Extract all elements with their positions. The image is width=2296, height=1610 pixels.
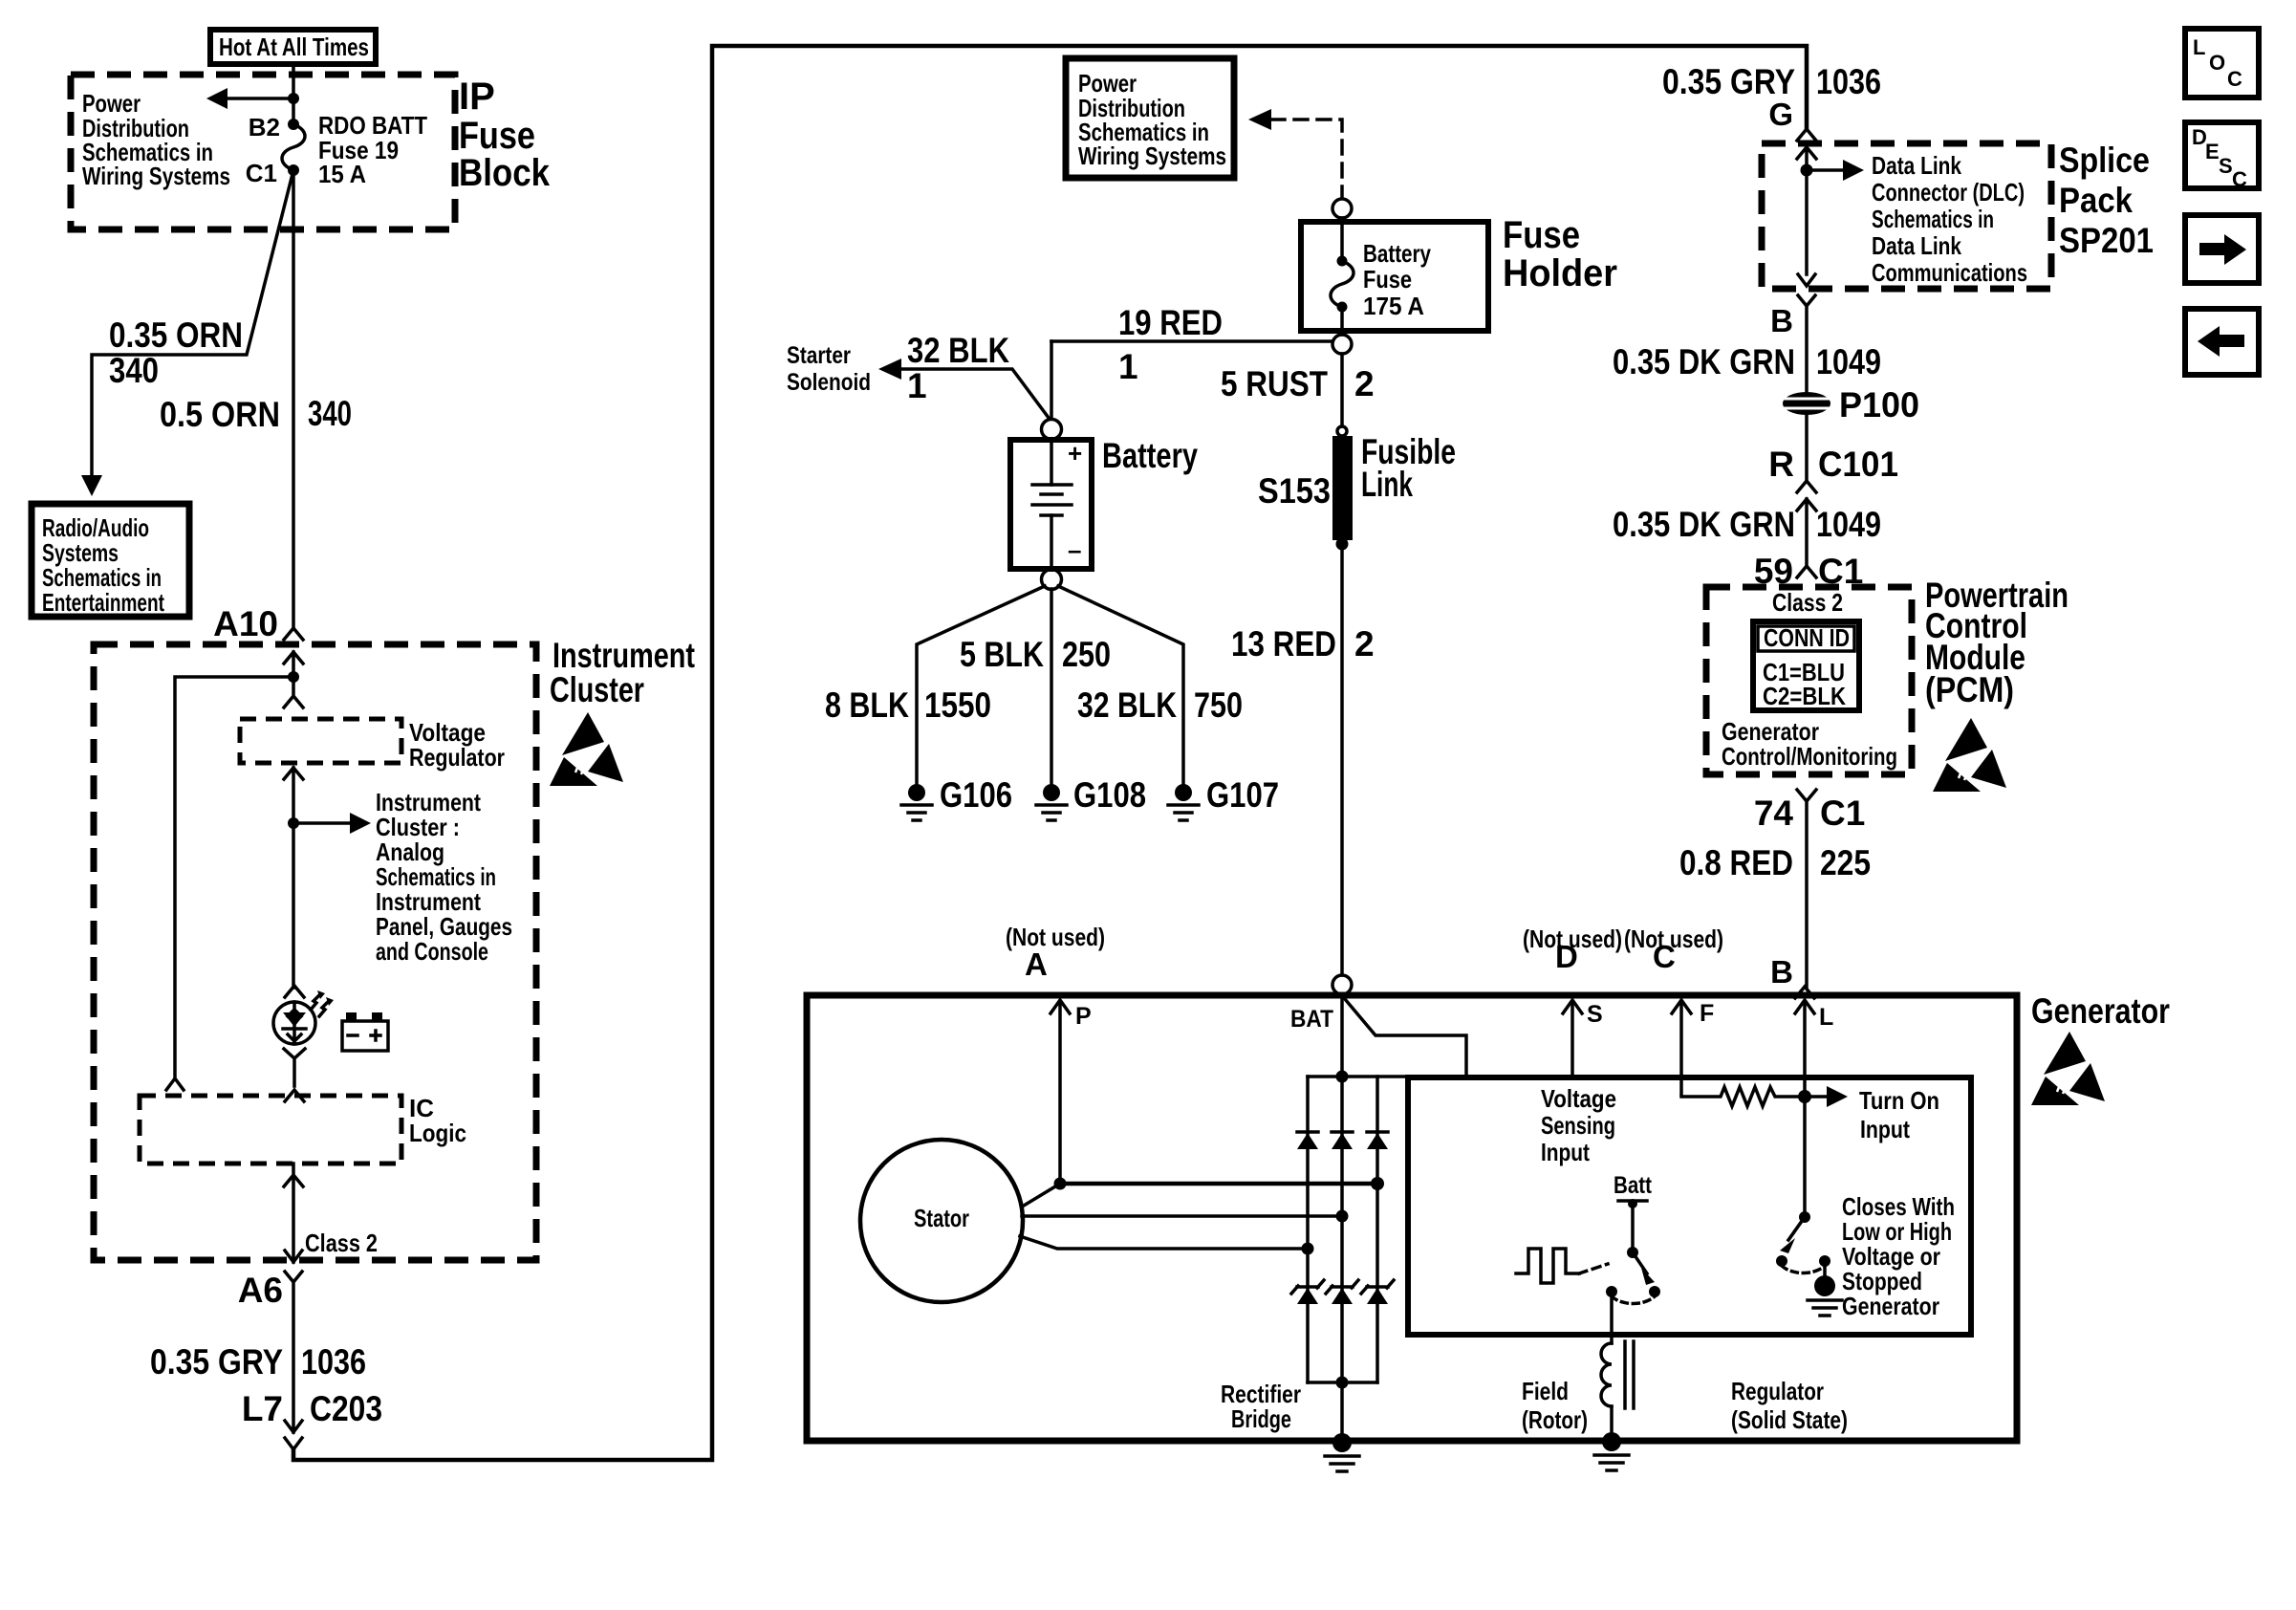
svg-text:5 BLK: 5 BLK <box>960 635 1044 674</box>
svg-text:1: 1 <box>1118 347 1138 386</box>
svg-text:13 RED: 13 RED <box>1231 624 1336 664</box>
icon: forward arrow box <box>2185 215 2259 283</box>
icon: ESD warning triangle (PCM) <box>1933 718 2006 792</box>
svg-text:Entertainment: Entertainment <box>42 588 164 617</box>
label: IP Fuse Block <box>459 76 551 194</box>
svg-text:Generator: Generator <box>2031 991 2170 1031</box>
wire: IC logic to cluster exit <box>284 1164 303 1262</box>
terminal: fuse holder top ring <box>1332 199 1352 218</box>
svg-text:Schematics in: Schematics in <box>1872 205 1994 233</box>
svg-text:A: A <box>1025 946 1048 982</box>
junction: resistor to L wire <box>1798 1090 1811 1103</box>
connector: above charge indicator LED <box>285 986 304 997</box>
note: Instrument Cluster Analog Schematics <box>376 788 512 966</box>
svg-text:R: R <box>1768 445 1794 484</box>
svg-text:B: B <box>1770 954 1793 990</box>
svg-text:E: E <box>2205 140 2220 163</box>
label: Instrument Cluster <box>550 636 695 709</box>
svg-text:2: 2 <box>1354 624 1375 664</box>
component: Battery <box>1010 439 1092 569</box>
label: Powertrain Control Module (PCM) <box>1925 576 2069 709</box>
svg-text:C: C <box>2227 67 2242 91</box>
svg-text:A6: A6 <box>238 1271 283 1310</box>
icon: battery telltale <box>342 1012 388 1051</box>
svg-text:Connector (DLC): Connector (DLC) <box>1872 178 2025 207</box>
svg-text:Class 2: Class 2 <box>305 1229 378 1257</box>
svg-text:BAT: BAT <box>1290 1006 1333 1033</box>
svg-text:Communications: Communications <box>1872 258 2027 287</box>
diode: rectifier zener row <box>1291 1280 1394 1304</box>
svg-text:32 BLK: 32 BLK <box>907 331 1009 370</box>
svg-text:Starter: Starter <box>787 342 851 369</box>
wire: long return loop from C203 to right side of diagram <box>293 46 1807 1460</box>
ground: rectifier bridge ground <box>1325 1433 1359 1471</box>
svg-text:Data Link: Data Link <box>1872 151 1961 180</box>
svg-text:0.5 ORN: 0.5 ORN <box>160 395 280 434</box>
svg-text:0.35 DK GRN: 0.35 DK GRN <box>1613 505 1795 544</box>
resistor: field feed resistor <box>1681 1087 1801 1106</box>
wire: branch to IC logic (left leg) <box>175 677 293 1078</box>
svg-text:C1: C1 <box>1820 794 1865 833</box>
svg-text:340: 340 <box>109 351 159 390</box>
svg-text:Logic: Logic <box>409 1119 466 1147</box>
component: Fuse Holder box <box>1301 222 1488 331</box>
ground G108 <box>1036 775 1146 820</box>
svg-text:C203: C203 <box>310 1389 382 1428</box>
svg-text:Fuse: Fuse <box>1503 214 1580 256</box>
svg-text:Wiring Systems: Wiring Systems <box>82 162 230 190</box>
icon: LOC reference box <box>2185 29 2259 98</box>
svg-text:Battery: Battery <box>1102 436 1198 475</box>
svg-text:S153: S153 <box>1258 471 1331 511</box>
svg-text:CONN ID: CONN ID <box>1764 623 1850 652</box>
terminal: battery positive post <box>1042 420 1062 440</box>
svg-text:0.35 DK GRN: 0.35 DK GRN <box>1613 342 1795 381</box>
svg-text:and Console: and Console <box>376 937 488 966</box>
wire: stator phase 3 to rectifier <box>1020 1236 1308 1249</box>
svg-text:Pack: Pack <box>2059 181 2133 220</box>
node: Radio/Audio Systems box <box>32 504 189 617</box>
svg-text:SP201: SP201 <box>2059 221 2154 260</box>
wire: dashed reference from fuse holder to power distribution <box>1271 120 1342 198</box>
node: Hot At All Times feed box <box>210 30 376 64</box>
component: Rectifier Bridge <box>1308 1071 1408 1389</box>
wire: branch arrow to Power Distribution schematics (left) <box>226 97 293 100</box>
svg-text:0.35 GRY: 0.35 GRY <box>1662 62 1795 101</box>
svg-text:S: S <box>2219 154 2233 178</box>
table: CONN ID C1=BLU C2=BLK <box>1753 621 1859 710</box>
label: Splice Pack SP201 <box>2059 141 2154 260</box>
grommet P100 <box>1781 385 1919 424</box>
svg-text:Bridge: Bridge <box>1231 1404 1291 1433</box>
svg-text:2: 2 <box>1354 364 1375 403</box>
connector: cluster exit arrow at A6 <box>285 1251 302 1262</box>
fuse: Battery Fuse 175 A <box>1340 218 1344 261</box>
component: Voltage Regulator dashed box <box>240 719 401 763</box>
svg-text:Solenoid: Solenoid <box>787 369 871 396</box>
wire: 5 RUST 2 from fuse holder down <box>1340 354 1344 426</box>
component: Generator box <box>807 995 2017 1441</box>
wire: BAT into rectifier bridge <box>1340 994 1344 1077</box>
arrowhead into Radio/Audio systems <box>81 475 102 496</box>
switch: L terminal lamp switch <box>1776 1211 1842 1316</box>
Powertrain Control Module dashed outline <box>1706 587 1912 774</box>
terminal arrow: L <box>1795 1000 1814 1095</box>
svg-text:15 A: 15 A <box>318 160 366 188</box>
inductor: Field (Rotor) coil <box>1601 1341 1634 1408</box>
svg-text:Splice: Splice <box>2059 141 2150 180</box>
wire: stator phase 2 to rectifier <box>1022 1214 1342 1218</box>
note: Data Link Connector (DLC) Schematics <box>1872 151 2027 287</box>
wire: 0.35 ORN 340 diagonal branch from C1 <box>92 174 292 478</box>
svg-text:B: B <box>1770 303 1793 338</box>
svg-text:O: O <box>2209 51 2225 75</box>
svg-text:19 RED: 19 RED <box>1118 303 1223 342</box>
component: Regulator (Solid State) box <box>1408 1077 1971 1335</box>
component: IC Logic dashed box <box>140 1096 401 1164</box>
svg-text:5 RUST: 5 RUST <box>1221 364 1328 403</box>
svg-text:Link: Link <box>1361 465 1413 504</box>
svg-text:Battery: Battery <box>1363 239 1431 268</box>
svg-text:225: 225 <box>1820 843 1871 882</box>
svg-text:750: 750 <box>1194 685 1243 725</box>
ground G107 <box>1168 775 1279 820</box>
svg-text:G: G <box>1768 97 1793 132</box>
svg-text:0.8 RED: 0.8 RED <box>1679 843 1793 882</box>
wire: arrow to Turn On Input <box>1805 1095 1828 1099</box>
svg-text:1049: 1049 <box>1816 342 1881 381</box>
svg-text:C: C <box>2232 167 2247 191</box>
svg-text:(Not used): (Not used) <box>1006 923 1105 951</box>
value: RDO BATT Fuse 19 15 A <box>318 111 427 188</box>
svg-text:0.35 GRY: 0.35 GRY <box>150 1342 283 1382</box>
svg-text:1036: 1036 <box>301 1342 366 1382</box>
wire: P100 to C101 <box>1805 414 1809 481</box>
switch: Batt voltage sense switch <box>1606 1172 1660 1304</box>
wire: BAT branch to regulator <box>1345 999 1466 1076</box>
svg-text:Regulator: Regulator <box>1731 1377 1824 1405</box>
svg-text:32 BLK: 32 BLK <box>1077 685 1177 725</box>
terminal: fuse holder bottom ring <box>1332 335 1352 354</box>
node: Power Distribution Schematics box (middle) <box>1066 58 1234 178</box>
svg-text:Field: Field <box>1522 1377 1569 1405</box>
terminal: battery negative post <box>1042 570 1062 590</box>
svg-text:Generator: Generator <box>1842 1292 1939 1320</box>
connector: above voltage regulator <box>284 677 303 707</box>
icon: ESD warning triangle (instrument cluster) <box>550 712 623 786</box>
svg-text:–: – <box>1068 535 1081 564</box>
svg-text:G108: G108 <box>1073 775 1146 815</box>
svg-text:L7: L7 <box>242 1389 283 1428</box>
svg-text:(PCM): (PCM) <box>1925 670 2014 709</box>
svg-text:A10: A10 <box>213 604 278 643</box>
wire: L wire inside regulator <box>1803 1097 1807 1217</box>
junction: analog gauges branch <box>288 817 299 829</box>
svg-text:Fuse: Fuse <box>459 115 535 157</box>
fuse RDO BATT Fuse 19 15A symbol <box>288 119 299 130</box>
svg-text:Hot At All Times: Hot At All Times <box>219 33 369 61</box>
svg-text:D: D <box>1555 939 1578 974</box>
component: Stator <box>860 1140 1023 1302</box>
wire: from Hot At All Times down into fuse block <box>292 64 295 124</box>
connector: PCM pin 74 C1 <box>1797 790 1816 987</box>
wire: stator phase 1 to rectifier <box>1024 1186 1055 1206</box>
svg-text:C101: C101 <box>1818 445 1898 484</box>
Splice Pack SP201 dashed outline <box>1762 143 2051 289</box>
svg-text:Turn On: Turn On <box>1859 1086 1939 1115</box>
svg-text:C2=BLK: C2=BLK <box>1763 682 1846 710</box>
svg-text:Voltage: Voltage <box>1541 1084 1616 1113</box>
svg-text:1550: 1550 <box>924 685 991 725</box>
svg-text:74: 74 <box>1754 794 1794 833</box>
svg-text:F: F <box>1700 1000 1714 1027</box>
splice S153 fusible link <box>1337 426 1347 436</box>
connector: generator L entry <box>1795 987 1814 998</box>
svg-text:C: C <box>1653 939 1676 974</box>
svg-text:Wiring Systems: Wiring Systems <box>1078 141 1226 170</box>
icon: ESD warning triangle (generator) <box>2031 1032 2105 1105</box>
wire: field coil to ground <box>1610 1406 1614 1433</box>
wire: rectifier to ground <box>1340 1382 1344 1434</box>
wire: switch to field coil <box>1610 1292 1614 1343</box>
terminal arrow: P <box>1051 1000 1070 1184</box>
svg-text:Fuse: Fuse <box>1363 265 1412 294</box>
connector: C203 double chevron <box>285 1421 302 1449</box>
value: Battery Fuse 175 A <box>1363 239 1431 320</box>
svg-text:(Rotor): (Rotor) <box>1522 1405 1588 1434</box>
connector: splice pack entry <box>1797 129 1816 141</box>
connector: below LED <box>284 1049 305 1086</box>
wire: through splice pack <box>1797 147 1816 274</box>
connector: C101 double chevron <box>1797 481 1816 566</box>
svg-text:Class 2: Class 2 <box>1772 588 1843 617</box>
svg-text:8 BLK: 8 BLK <box>825 685 909 725</box>
wire: regulator to junction <box>284 768 303 988</box>
svg-text:1049: 1049 <box>1816 505 1881 544</box>
IP Fuse Block dashed outline <box>71 75 455 229</box>
svg-text:1036: 1036 <box>1816 62 1881 101</box>
note: Power Distribution Schematics in Wiring Systems (IP fuse block) <box>82 89 230 190</box>
component: charge indicator LED <box>273 990 334 1044</box>
terminal arrow: S <box>1563 1000 1582 1076</box>
svg-text:B2: B2 <box>249 113 280 141</box>
icon: back arrow box <box>2185 309 2259 375</box>
junction: dot at power distribution branch <box>288 93 299 104</box>
junction: cluster feed split <box>288 671 299 683</box>
svg-text:G106: G106 <box>940 775 1012 815</box>
wire: battery positive riser <box>1050 341 1053 419</box>
svg-text:L: L <box>1819 1004 1833 1031</box>
svg-text:250: 250 <box>1062 635 1111 674</box>
ground: field rotor ground <box>1594 1432 1629 1470</box>
svg-text:175 A: 175 A <box>1363 292 1424 320</box>
svg-text:IP: IP <box>459 76 495 118</box>
svg-text:Holder: Holder <box>1503 252 1617 294</box>
wire: ground fan-out from battery negative <box>917 586 1183 784</box>
svg-text:C1: C1 <box>246 159 277 187</box>
svg-text:Instrument: Instrument <box>552 636 695 675</box>
svg-text:Control/Monitoring: Control/Monitoring <box>1722 742 1897 771</box>
svg-text:(Solid State): (Solid State) <box>1731 1405 1848 1434</box>
terminal arrow: F <box>1672 1000 1691 1095</box>
ground G106 <box>901 775 1012 820</box>
wire: 13 RED 2 down to generator BAT <box>1340 544 1344 975</box>
svg-text:G107: G107 <box>1206 775 1279 815</box>
junction: splice to DLC <box>1801 164 1813 177</box>
svg-text:Sensing: Sensing <box>1541 1111 1615 1140</box>
wire: 19 RED feed from battery to fuse holder <box>1051 339 1332 343</box>
wire: 0.5 ORN 340 main vertical from C1 to instrument cluster <box>292 170 295 628</box>
svg-text:L: L <box>2193 35 2205 59</box>
svg-text:1: 1 <box>907 366 927 405</box>
svg-text:Cluster: Cluster <box>550 670 644 709</box>
svg-text:P: P <box>1075 1003 1092 1030</box>
svg-text:340: 340 <box>308 394 352 433</box>
wire: arrow to Instrument Cluster Analog schematics <box>293 821 352 825</box>
connector: PCM C1 entry <box>1797 566 1816 577</box>
connector: splice pack exit arrow <box>1798 274 1815 286</box>
svg-text:Batt: Batt <box>1614 1172 1653 1199</box>
svg-text:0.35 ORN: 0.35 ORN <box>109 315 243 355</box>
Instrument Cluster dashed outline <box>94 644 536 1260</box>
svg-text:Stator: Stator <box>914 1204 969 1232</box>
svg-text:Regulator: Regulator <box>409 743 505 772</box>
note: Closes With Low or High Voltage or Stopped Generator <box>1842 1192 1955 1320</box>
terminal: BAT circle <box>1332 975 1352 994</box>
svg-text:+: + <box>1068 439 1082 468</box>
svg-text:Block: Block <box>459 152 551 194</box>
svg-text:Input: Input <box>1541 1138 1590 1166</box>
svg-text:Input: Input <box>1860 1115 1910 1143</box>
svg-text:P100: P100 <box>1839 385 1919 424</box>
waveform: square wave PWM symbol <box>1516 1249 1579 1283</box>
svg-text:Data Link: Data Link <box>1872 231 1961 260</box>
diode: rectifier top row <box>1297 1132 1388 1149</box>
icon: DESC reference box <box>2185 122 2259 191</box>
svg-text:S: S <box>1587 1001 1603 1028</box>
wire: 32 BLK 1 to Starter Solenoid <box>899 369 1049 418</box>
connector: cluster inline connector at A10 <box>284 628 303 640</box>
